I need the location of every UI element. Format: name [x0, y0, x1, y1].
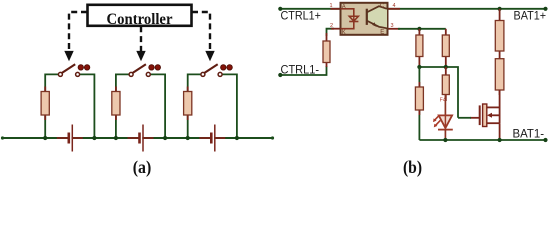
wire sw2 right leg — [150, 74, 165, 138]
wire opto pin4 to BAT1+ (top rail) — [388, 8, 546, 10]
resistor RA — [416, 29, 423, 67]
svg-text:(a): (a) — [133, 157, 152, 178]
node BAT1- rail end — [543, 138, 547, 142]
opto pin 1 lead — [331, 8, 341, 10]
wire opto pin2 to RK top — [327, 29, 335, 36]
svg-text:CTRL1+: CTRL1+ — [281, 11, 322, 23]
svg-text:1: 1 — [330, 3, 333, 9]
wire sw1 left leg — [45, 74, 59, 138]
node divider top junction — [417, 27, 421, 31]
battery B2 — [128, 125, 154, 152]
node CTRL1+ terminal — [278, 7, 282, 11]
wire sw3 left leg — [188, 74, 202, 138]
switch SW3 — [201, 64, 232, 76]
resistor RE1 — [495, 9, 504, 55]
dashed control arrow 1 — [64, 12, 87, 61]
wire left branch down — [418, 67, 420, 140]
wire CTRL1+ to opto pin1 (top-left) — [280, 8, 340, 10]
MOSFET Q1 — [470, 90, 500, 140]
switch SW1 — [58, 64, 89, 76]
wire pin3 to divider top — [398, 28, 446, 30]
bottom rail of panel b — [419, 139, 545, 141]
battery B3 — [199, 125, 225, 152]
wire sw3 right leg — [222, 74, 237, 138]
svg-text:4: 4 — [393, 3, 396, 9]
resistor RK — [323, 33, 330, 67]
opto pin 2 lead — [331, 28, 340, 30]
svg-text:K: K — [342, 30, 346, 36]
svg-text:A: A — [342, 4, 346, 10]
wire sw2 left leg — [116, 74, 130, 138]
resistor RD — [415, 82, 423, 115]
controller box — [88, 5, 192, 28]
wire sw1 right leg — [80, 74, 95, 138]
node MOSFET source/rail — [498, 138, 502, 142]
junction node SW3/rail — [235, 136, 239, 140]
opto pin 3 lead — [388, 28, 401, 30]
svg-text:(b): (b) — [403, 157, 422, 178]
optocoupler U1 body — [341, 3, 388, 35]
resistor R1 — [41, 87, 49, 121]
wire mid rail y67 — [419, 67, 458, 118]
svg-text:3: 3 — [391, 23, 394, 29]
BAT1+ chain: junction node — [498, 7, 502, 11]
wire CTRL1- to resistor RK (left lower) — [280, 66, 326, 75]
node CTRL1- terminal — [278, 73, 282, 77]
resistor RC — [442, 67, 449, 101]
resistor R3 — [184, 87, 192, 121]
svg-text:2: 2 — [330, 23, 333, 29]
svg-text:BAT1-: BAT1- — [513, 129, 545, 141]
svg-text:BAT1+: BAT1+ — [514, 11, 547, 23]
dashed control arrow 2 — [136, 26, 145, 61]
opto pin 4 lead — [388, 8, 401, 10]
switch SW2 — [129, 64, 160, 76]
svg-text:CTRL1-: CTRL1- — [281, 64, 320, 76]
junction node SW1/rail — [92, 136, 96, 140]
svg-text:Controller: Controller — [107, 11, 173, 28]
battery B1 — [57, 125, 83, 152]
node LED/rail — [443, 138, 447, 142]
node BAT1+ rail end — [543, 7, 547, 11]
node mid rail centre — [444, 65, 448, 69]
dashed control arrow 3 — [192, 12, 215, 61]
LED D1 — [433, 95, 453, 141]
wire gate feed — [458, 117, 471, 119]
node mid rail left — [417, 65, 421, 69]
junction node SW2/rail — [163, 136, 167, 140]
opto LED diode — [341, 9, 359, 29]
resistor R2 — [112, 87, 120, 121]
junction node R2/rail — [114, 136, 118, 140]
svg-text:E: E — [380, 30, 384, 36]
resistor RB — [442, 29, 449, 67]
opto phototransistor — [367, 6, 387, 28]
junction node R1/rail — [43, 136, 47, 140]
bottom rail (battery string) — [1, 136, 274, 139]
resistor RE2 — [495, 55, 504, 95]
svg-text:C: C — [380, 4, 385, 10]
junction node R3/rail — [186, 136, 190, 140]
